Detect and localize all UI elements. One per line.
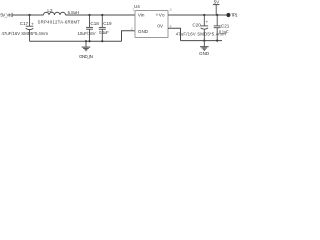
svg-text:C17: C17 (20, 21, 29, 26)
svg-text:47uF/16V SMD5*5.4mm: 47uF/16V SMD5*5.4mm (2, 31, 49, 36)
node junction C19 (101, 14, 103, 16)
svg-text:0V: 0V (157, 23, 164, 28)
svg-text:C19: C19 (103, 21, 112, 26)
svg-text:Vin: Vin (138, 13, 145, 18)
capacitor C18 (86, 15, 93, 41)
svg-text:L2: L2 (47, 8, 53, 13)
wire 0V to rail (168, 28, 181, 40)
capacitor C17 (26, 15, 35, 41)
node junction C20 (203, 14, 205, 16)
svg-text:C20: C20 (192, 23, 201, 28)
inductor L2 (44, 12, 66, 15)
ground GND output (200, 41, 209, 51)
svg-text:3: 3 (170, 8, 172, 12)
wire (13, 14, 44, 16)
svg-text:GND: GND (138, 29, 149, 34)
node junction C18 (88, 14, 90, 16)
capacitor C20 (201, 15, 209, 41)
node junction rail C18 (88, 40, 90, 42)
ground GND_IN (82, 41, 91, 51)
wire ground rail input (30, 40, 122, 42)
svg-text:0.1uF: 0.1uF (219, 29, 229, 34)
svg-text:GND_IN: GND_IN (79, 54, 93, 59)
svg-text:+Vo: +Vo (156, 13, 165, 18)
svg-text:C18: C18 (90, 21, 99, 26)
svg-text:C21: C21 (221, 23, 230, 28)
dc-dc module U4 (135, 11, 168, 38)
wire pin2 (122, 31, 136, 41)
svg-text:0.1uF: 0.1uF (99, 30, 109, 35)
svg-text:5V: 5V (214, 0, 221, 5)
svg-text:5V_Vin: 5V_Vin (0, 13, 11, 18)
node junction rail C19 (101, 40, 103, 42)
svg-text:6.8uH: 6.8uH (68, 10, 80, 15)
svg-text:SRP4012TA-6R8MT: SRP4012TA-6R8MT (38, 19, 81, 24)
test point TP1 (226, 13, 238, 18)
svg-text:+: + (206, 19, 209, 24)
svg-text:2: 2 (131, 27, 133, 31)
svg-text:TP1: TP1 (231, 13, 238, 18)
wire ground rail output (181, 40, 223, 42)
power flag 5V (213, 0, 220, 15)
node junction rail C21 (216, 40, 218, 42)
capacitor C21 (214, 15, 221, 41)
node junction rail C20 (203, 40, 205, 42)
svg-text:4: 4 (170, 24, 172, 28)
wire (66, 14, 136, 16)
svg-text:10uF/16V: 10uF/16V (78, 31, 96, 36)
node junction rail GND_IN (85, 40, 87, 42)
node junction C17 (28, 14, 30, 16)
node junction C21 (216, 14, 218, 16)
port 5V_Vin (0, 13, 12, 18)
capacitor C19 (99, 15, 106, 41)
wire output (168, 14, 226, 16)
svg-text:GND: GND (199, 51, 210, 56)
svg-text:U4: U4 (134, 4, 140, 9)
svg-text:1: 1 (132, 8, 134, 12)
svg-text:+: + (31, 22, 34, 27)
